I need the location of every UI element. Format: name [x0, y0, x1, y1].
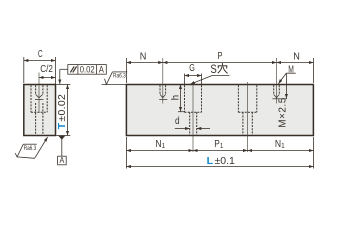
svg-text:N1: N1 [155, 139, 165, 150]
S hole 2 center line [247, 82, 249, 152]
svg-text:C/2: C/2 [40, 64, 53, 75]
svg-text:P1: P1 [214, 139, 223, 150]
C dimension extension line right [55, 57, 57, 84]
h dimension line [180, 85, 182, 112]
S hole 1 center line [192, 82, 194, 152]
svg-text:N1: N1 [275, 139, 285, 150]
counterbore bottom extension for h [178, 111, 185, 113]
S hole 2 counterbore bottom [238, 111, 256, 113]
svg-text:Ra6.3: Ra6.3 [24, 145, 37, 152]
left view block body [24, 85, 56, 136]
FCF leader [60, 68, 68, 70]
S hole 1 counterbore bottom [185, 111, 202, 113]
svg-text:G: G [189, 63, 195, 74]
parallelism symbol [70, 66, 74, 72]
svg-text:T±0.02: T±0.02 [56, 94, 68, 129]
C/2 dimension line [39, 77, 55, 79]
bottom extensions [126, 137, 128, 169]
T dimension bottom extension [56, 135, 70, 137]
svg-text:0.02: 0.02 [80, 64, 95, 74]
left view vertical center line [38, 73, 40, 114]
svg-text:Ra6.3: Ra6.3 [113, 73, 126, 80]
N left dimension line [126, 62, 162, 64]
bottom-left surface finish leader [17, 157, 34, 158]
tap hole 1 depth line [159, 99, 167, 101]
kanji hole (drawn) [218, 63, 228, 73]
N right dimension line [277, 62, 314, 64]
svg-text:P: P [218, 50, 223, 62]
datum A stem [61, 139, 63, 156]
right view block body [126, 85, 313, 136]
datum A triangle [58, 136, 65, 140]
C dimension extension line left [23, 57, 25, 83]
M depth leader [285, 73, 287, 98]
tap hole 2 drill V [274, 94, 277, 97]
M leader to hole [278, 73, 286, 84]
datum A box [58, 156, 67, 165]
left view counterbore G walls (hidden) [30, 85, 32, 112]
tap hole 1 walls [159, 85, 161, 94]
tap hole 2 center line [276, 58, 278, 104]
P1 dimension line [193, 150, 248, 152]
G dimension line [185, 75, 202, 77]
P dimension line [163, 62, 277, 64]
tap hole 2 depth line [272, 98, 287, 100]
svg-text:N: N [140, 51, 147, 63]
svg-text:L±0.1: L±0.1 [207, 155, 235, 167]
right edge top extension [313, 58, 315, 83]
FCF frame [68, 65, 107, 75]
S hole 2 counterbore walls [237, 85, 239, 112]
G dimension extensions [184, 74, 186, 85]
svg-text:A: A [99, 64, 104, 74]
left view through hole d walls lower (hidden) [35, 103, 37, 135]
left view tap depth line [35, 99, 43, 101]
N1 right dimension line [248, 150, 314, 152]
L dimension line [126, 166, 313, 168]
T dimension top extension [56, 84, 70, 86]
S hole 1 counterbore walls [184, 85, 186, 112]
left view counterbore bottom (hidden) [31, 111, 47, 113]
T dimension line [67, 85, 69, 136]
top surface extension line [102, 84, 127, 86]
svg-text:N: N [293, 51, 300, 63]
svg-text:M×2.5: M×2.5 [277, 97, 288, 128]
svg-text:d: d [175, 116, 180, 127]
M underline [286, 72, 296, 74]
top surface finish symbol [105, 72, 113, 85]
S hole 1 through walls [189, 112, 191, 135]
C dimension line [24, 60, 56, 62]
svg-text:C: C [38, 48, 43, 60]
S hole leader [213, 74, 230, 76]
S hole 2 through walls [242, 112, 244, 135]
tap hole 2 walls [273, 85, 275, 94]
svg-text:A: A [60, 155, 65, 165]
svg-text:h: h [170, 95, 181, 101]
d dimension line left part [175, 128, 190, 130]
svg-text:S: S [210, 64, 217, 76]
left edge top extension [126, 58, 128, 83]
d dimension line right part [197, 128, 210, 130]
bottom-left surface finish symbol [15, 144, 23, 157]
left view tap drill point V [36, 94, 39, 97]
N1 left dimension line [126, 150, 193, 152]
tap hole 1 drill V [160, 94, 163, 97]
tap hole 1 center line [162, 58, 164, 104]
left view through hole d walls upper (hidden) [35, 85, 37, 94]
